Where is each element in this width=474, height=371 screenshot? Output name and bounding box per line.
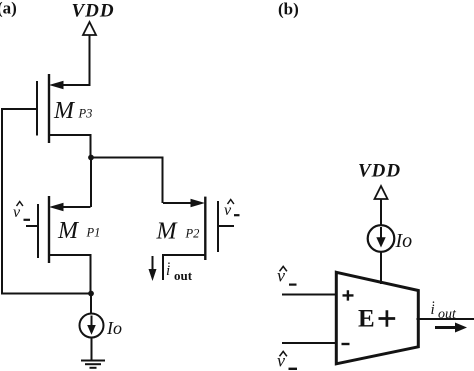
- wire VDD to current source (b): [380, 199, 382, 226]
- channel bar: [204, 197, 206, 260]
- drain stub: [49, 135, 91, 158]
- wire VDD to M_P3 source: [89, 35, 91, 85]
- wire node A to M_P1 source: [90, 156, 92, 207]
- gate bar: [37, 204, 39, 258]
- VDD supply triangle (b): [375, 186, 388, 199]
- left feedback rail: [2, 108, 91, 294]
- VDD supply triangle (a): [83, 22, 96, 35]
- drain stub: [49, 255, 91, 294]
- svg-text:P2: P2: [185, 227, 200, 241]
- svg-text:M: M: [57, 218, 80, 244]
- minus terminal mark: [342, 343, 350, 345]
- svg-text:v: v: [13, 204, 21, 221]
- transistor M_P1: [26, 196, 91, 294]
- output current arrow (b): [435, 326, 458, 329]
- svg-text:E: E: [358, 306, 375, 333]
- wire node B to current source: [90, 294, 92, 315]
- source stub wire with arrow into channel: [163, 202, 193, 204]
- svg-text:i̇: i̇: [166, 263, 170, 279]
- input wire v_hat_plus (b): [282, 294, 336, 296]
- gate bar: [217, 201, 219, 252]
- svg-text:VDD: VDD: [358, 161, 401, 182]
- wire node A to M_P2 source: [91, 158, 163, 204]
- gate wire M_P3 to left rail: [2, 108, 37, 110]
- node A (drain M_P3): [88, 155, 94, 161]
- source stub wire with arrow into channel: [60, 84, 91, 86]
- transistor M_P2: [163, 197, 234, 280]
- i_out current arrow (a): [152, 256, 154, 272]
- svg-text:P3: P3: [78, 107, 93, 121]
- svg-text:VDD: VDD: [72, 1, 115, 22]
- svg-text:out: out: [438, 307, 457, 322]
- source stub wire with arrow into channel: [60, 206, 91, 208]
- input wire v_hat_minus (b): [282, 342, 336, 344]
- gate bar: [36, 81, 38, 136]
- drain stub: [163, 255, 205, 280]
- svg-text:M: M: [156, 219, 179, 245]
- output wire (b): [417, 318, 474, 320]
- svg-text:Io: Io: [395, 230, 413, 252]
- svg-text:(a): (a): [0, 0, 17, 18]
- svg-text:v: v: [224, 202, 232, 219]
- channel bar: [48, 74, 50, 143]
- gate stub wire: [218, 225, 234, 227]
- channel bar: [48, 196, 50, 263]
- ground: [81, 361, 105, 368]
- gate stub wire: [26, 225, 38, 227]
- transistor M_P3: [37, 74, 91, 158]
- svg-text:Io: Io: [106, 318, 122, 338]
- wire current source to E+ block: [380, 252, 382, 284]
- E+ block trapezoid: [336, 272, 418, 364]
- svg-text:(b): (b): [278, 0, 299, 19]
- current source Io (b): [368, 225, 395, 252]
- plus terminal mark: [343, 290, 354, 300]
- current source Io (a): [80, 314, 104, 338]
- svg-text:P1: P1: [86, 226, 101, 240]
- node B (tail node): [88, 291, 94, 297]
- svg-text:M: M: [53, 98, 76, 124]
- wire current source to ground: [91, 337, 93, 360]
- svg-text:i̇: i̇: [431, 302, 435, 318]
- svg-text:out: out: [174, 268, 193, 283]
